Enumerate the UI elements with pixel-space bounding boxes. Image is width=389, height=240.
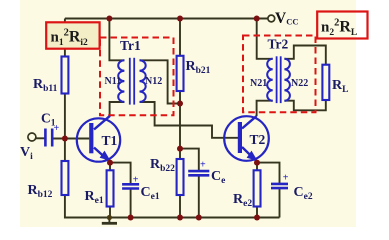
wire T1 emitter to Ce1	[110, 163, 131, 185]
svg-text:N22: N22	[291, 78, 308, 89]
wire Tr2 secondary bottom to RL	[284, 100, 325, 110]
svg-text:Tr2: Tr2	[268, 37, 289, 52]
transformer Tr1 dashed boundary	[100, 38, 174, 116]
ground	[102, 218, 117, 224]
wire top supply rail	[65, 18, 268, 20]
junction node Re2-bus	[254, 215, 260, 221]
annotation box n1^2 Ri2	[46, 22, 99, 48]
junction node T1 emitter	[107, 160, 113, 166]
resistor Rb12	[62, 161, 69, 195]
wire Tr1 primary bottom to T1 collector	[110, 102, 125, 116]
junction node T2 emitter	[254, 160, 260, 166]
wire Re1 bottom to ground bus	[109, 207, 111, 218]
junction node Rb21-N12	[177, 101, 183, 107]
wire Tr1 secondary top to bias node	[140, 60, 181, 103]
svg-text:N21: N21	[250, 78, 267, 89]
junction node Rb22-bus	[177, 215, 183, 221]
svg-text:T1: T1	[102, 133, 118, 148]
resistor Re2	[254, 170, 261, 206]
transformer Tr2 winding N21	[267, 59, 273, 101]
junction node ground tap	[107, 215, 112, 220]
svg-text:N12: N12	[145, 76, 162, 87]
wire Tr2 secondary top to RL	[284, 46, 325, 65]
svg-text:+: +	[283, 173, 289, 184]
terminal Vcc	[268, 15, 275, 22]
wire node A down to Rb12	[64, 139, 66, 162]
wire Ce2 bottom to ground bus	[279, 188, 281, 218]
resistor RL	[322, 65, 329, 100]
transformer Tr2 winding N22	[284, 59, 290, 101]
junction node rail-Tr1	[106, 16, 112, 22]
resistor Rb21	[177, 56, 184, 91]
capacitor Ce2	[271, 184, 288, 188]
annotation box n2^2 RL	[317, 12, 367, 39]
wire stub rail to n1^2Ri2 box and Rb11	[64, 19, 66, 57]
junction node bias divider	[177, 146, 183, 152]
terminal Vi input	[28, 133, 36, 141]
junction node Ce-bus	[196, 215, 202, 221]
wire T2 emitter to Ce2	[257, 163, 280, 184]
wire Rb12 bottom to ground bus	[65, 195, 280, 218]
wire Rb11 bottom to input node	[64, 94, 66, 139]
junction node rail-Vcc	[254, 16, 260, 22]
transformer Tr1 core	[130, 58, 134, 105]
svg-text:T2: T2	[250, 132, 266, 147]
capacitor C1	[45, 129, 52, 147]
svg-text:+: +	[200, 160, 206, 171]
wire bias node to Ce	[180, 149, 199, 171]
svg-text:+: +	[54, 123, 60, 134]
resistor Rb11	[62, 57, 69, 94]
wire rail down to Tr1 primary top	[109, 19, 124, 61]
wire Rb21 bottom to bias node	[179, 91, 181, 149]
transistor T1	[77, 116, 120, 162]
wire Tr1 secondary bottom to T2 base	[140, 102, 239, 138]
capacitor Ce1	[122, 184, 139, 188]
wire rail down through Rb21	[179, 19, 181, 56]
wire Rb22 bottom to ground bus	[179, 195, 181, 218]
wire Ce bottom to ground bus	[198, 175, 200, 217]
resistor Re1	[107, 170, 114, 206]
wire C1 to node A	[52, 138, 89, 140]
capacitor Ce	[188, 171, 209, 175]
transformer Tr2 core	[277, 56, 281, 103]
transistor T2	[224, 116, 269, 161]
junction node Ce1-bus	[128, 215, 134, 221]
wire Ce1 bottom to ground bus	[130, 188, 132, 217]
wire Tr2 primary bottom to T2 collector	[257, 101, 273, 116]
transformer Tr2 dashed boundary	[243, 36, 316, 113]
wire Re2 bottom to ground bus	[256, 207, 258, 218]
transformer Tr1 winding N12	[140, 60, 146, 102]
wire T2 emitter to Re2	[256, 163, 258, 171]
svg-text:+: +	[133, 175, 139, 186]
svg-text:N11: N11	[105, 76, 122, 87]
transformer Tr1 winding N11	[118, 60, 124, 102]
junction node input	[62, 136, 68, 142]
wire input node to T1 base	[36, 137, 45, 139]
wire bias node to Rb22	[179, 149, 181, 159]
wire T1 emitter to Re1	[109, 163, 111, 171]
junction node rail-Rb21	[177, 16, 183, 22]
svg-text:Tr1: Tr1	[120, 38, 141, 53]
resistor Rb22	[177, 159, 184, 195]
wire rail to Vcc dot down to Tr2 primary	[257, 19, 273, 59]
